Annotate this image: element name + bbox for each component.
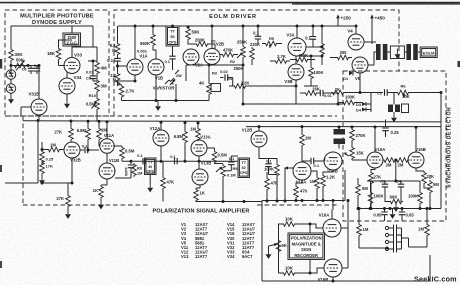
resistor 4M — [95, 61, 100, 75]
resistor 2M (left) — [383, 158, 397, 163]
resistor 47K — [161, 176, 166, 190]
wire C3 C4 row — [367, 181, 420, 191]
pot 15K — [350, 146, 355, 160]
resistor 1M (Ra) — [132, 163, 137, 177]
resistor 8.2M — [117, 26, 119, 42]
wire cathode row — [186, 65, 243, 105]
varistor — [165, 70, 179, 84]
resistor 1.2K — [321, 174, 326, 188]
resistor (V3A plate load) — [320, 42, 325, 56]
capacitor 0.05 (right) — [401, 209, 403, 212]
ground — [266, 251, 272, 259]
resistor 270K — [350, 128, 355, 142]
ground — [155, 103, 161, 111]
capacitor 0.25 — [385, 120, 387, 127]
capacitor 0.01 — [320, 90, 323, 96]
resistor 27K (left) — [369, 171, 374, 185]
plate rail V16 — [341, 201, 348, 269]
pot 5K — [276, 239, 281, 253]
resistor 6.8M — [86, 127, 91, 141]
recorder left rail — [277, 224, 280, 274]
tube list — [181, 222, 256, 259]
wire signal row — [122, 160, 238, 162]
resistor 1K — [194, 188, 199, 202]
resistor 2.7K — [119, 85, 124, 99]
resistor 18K — [56, 47, 61, 61]
wire top rail of dynode supply — [11, 26, 97, 61]
oscillator box TT 50 CPS — [172, 25, 174, 27]
tube V2B — [204, 49, 220, 65]
recorder box POLARIZATION MAGNITUDE & SIGN RECORDER — [288, 233, 325, 260]
dashed box: EOLM DRIVER — [114, 10, 399, 116]
lower rail — [150, 170, 345, 202]
lower rail of detector — [358, 208, 441, 210]
main B+ bus — [23, 121, 441, 122]
dashed box: POLARIZATION SIGNAL AMPLIFIER — [23, 116, 337, 205]
resistor 59K — [186, 27, 191, 41]
resistor 27K (lower) — [66, 194, 71, 208]
tube V30B — [6, 84, 15, 93]
tube V14A — [293, 162, 311, 180]
capacitor 0.1 — [117, 56, 119, 58]
transformer T1 — [376, 44, 381, 60]
resistor 27K (right) — [422, 171, 427, 185]
scan noise overlay — [0, 0, 1, 1]
resistor 5M (right) — [428, 180, 433, 194]
tube V5 — [352, 57, 368, 73]
transformer T2 — [406, 44, 411, 60]
resistor 30K — [9, 48, 14, 62]
resistor 1M — [315, 176, 320, 190]
resistor 470 — [294, 185, 299, 199]
capacitor 0.05 (left) — [384, 209, 386, 212]
pot R9 0.1M — [212, 150, 217, 164]
resistor 5M (left) — [356, 183, 361, 197]
oscillator box TT 52 CPS — [238, 158, 250, 178]
+250 rail — [118, 17, 338, 26]
transformer T4 — [338, 127, 340, 129]
top scan border line — [0, 2, 460, 4]
resistor 100K (right) — [418, 191, 423, 205]
ground — [8, 95, 14, 103]
resistor 100K (left) — [368, 191, 373, 205]
tube V2A — [183, 49, 199, 65]
1500 V D-C supply box — [63, 33, 81, 46]
resistor 47K — [265, 177, 270, 191]
wire node row — [11, 62, 38, 74]
pot 0.25M 17K — [40, 150, 45, 164]
transformer T3 — [393, 93, 395, 105]
wire — [243, 103, 343, 105]
resistor 470K — [295, 57, 309, 62]
ground — [39, 177, 45, 185]
resistor 1M (V14A plate) — [300, 133, 305, 147]
tube V13A — [196, 127, 201, 141]
dashed box: MULTIPLIER PHOTOTUBE DYNODE SUPPLY — [5, 10, 109, 116]
tube V34 — [59, 78, 75, 94]
node wires recorder — [309, 224, 311, 273]
phase box — [390, 46, 404, 59]
ground — [392, 209, 394, 212]
resistor 6.8M — [183, 130, 188, 144]
+450 feed — [371, 17, 373, 44]
relay contact bank — [385, 226, 388, 229]
capacitor C6 0.1 — [28, 68, 34, 71]
dashed box: SYNCHRONOUS DETECTOR — [343, 71, 446, 221]
tube V3B — [288, 64, 304, 80]
resistor 1K — [99, 185, 104, 199]
resistor 1M (left) — [357, 223, 362, 237]
bottom return wire — [262, 255, 430, 281]
left edge scan marks — [0, 59, 2, 69]
resistor 27K (V32B plate) — [69, 127, 74, 141]
resistor 1M (right) — [425, 223, 430, 237]
resistor 560K — [151, 33, 156, 47]
right edge scan mark — [458, 61, 460, 67]
resistor 0.5M — [120, 146, 125, 160]
resistor 100K (V3B) — [309, 66, 314, 80]
resistor 2.2M — [115, 72, 120, 86]
wire relay to ground row — [359, 248, 387, 249]
oscillator box TT 40 CPS — [145, 158, 157, 175]
EOLM output box — [420, 47, 437, 58]
wire left feed — [5, 122, 38, 184]
resistor 1M — [97, 127, 102, 141]
tube V32B — [64, 142, 80, 158]
pot R10 0.5M — [95, 97, 100, 111]
resistor 1M — [284, 168, 286, 202]
resistor 3M — [95, 79, 100, 93]
resistor 2M (right) — [395, 158, 409, 163]
B+ rail (mid) — [246, 93, 441, 209]
tube V16B — [324, 259, 342, 277]
tube V1B — [148, 59, 164, 75]
tube V30A — [6, 70, 15, 79]
tube V14B — [324, 152, 342, 170]
capacitor C5 — [88, 61, 97, 81]
